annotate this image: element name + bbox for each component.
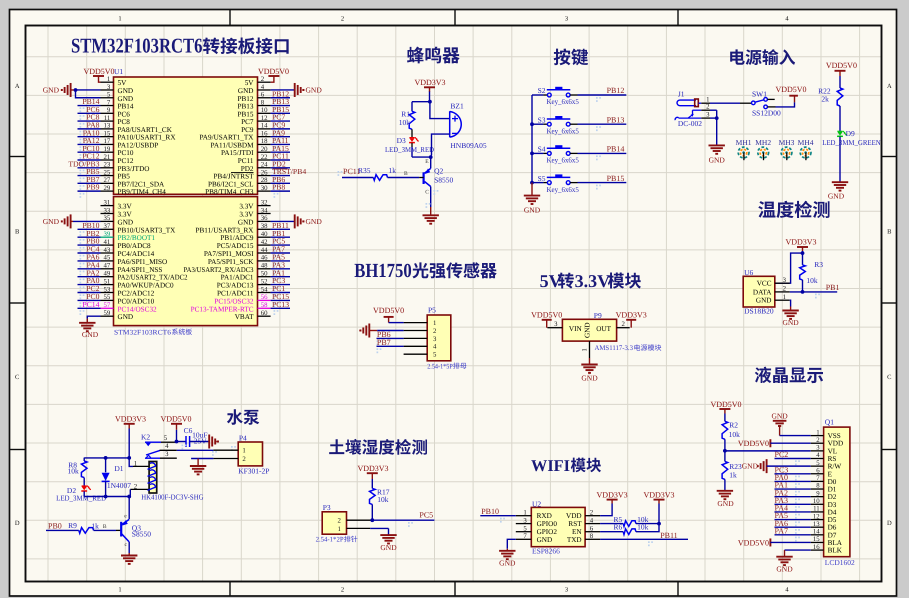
svg-text:STM32F103RCT6: STM32F103RCT6 xyxy=(71,34,203,58)
wire pump emitter node xyxy=(84,489,149,519)
svg-text:1k: 1k xyxy=(729,470,737,479)
svg-text:GND: GND xyxy=(771,411,788,420)
svg-text:OUT: OUT xyxy=(596,325,611,333)
node PB1 xyxy=(790,283,840,298)
svg-text:GND: GND xyxy=(776,564,793,573)
svg-text:PB8: PB8 xyxy=(272,183,285,192)
svg-text:LED_3MM_GREEN: LED_3MM_GREEN xyxy=(822,138,881,147)
U1 pin 8 PB13 xyxy=(238,97,290,112)
U1 pin 36 GND xyxy=(238,215,271,226)
svg-text:PB7: PB7 xyxy=(377,338,391,347)
svg-text:VDD3V3: VDD3V3 xyxy=(616,311,647,320)
title power input xyxy=(730,49,795,65)
U1 pin 3 GND xyxy=(101,84,134,95)
U1 pin 6 PB12 xyxy=(238,89,290,104)
svg-text:29: 29 xyxy=(104,185,111,192)
svg-text:D3: D3 xyxy=(397,136,406,145)
wire buzzer bottom lead xyxy=(412,134,450,159)
U1 pin 5 GND xyxy=(101,92,134,103)
svg-text:GND: GND xyxy=(82,330,99,339)
svg-text:2: 2 xyxy=(433,328,437,335)
ground GND U1 pin4 xyxy=(271,83,323,97)
overline TRST xyxy=(273,168,288,170)
svg-text:SS12D00: SS12D00 xyxy=(752,109,781,118)
svg-text:VDD5V0: VDD5V0 xyxy=(826,61,857,70)
switch S3 Key_6x6x5 xyxy=(532,115,626,135)
node PC5 xyxy=(370,510,434,527)
U1 pin 46 PA5/SPI1_SCK xyxy=(208,253,290,268)
U1 pin 59 GND xyxy=(101,310,134,321)
svg-text:VDD3V3: VDD3V3 xyxy=(115,415,146,424)
ground GND U1 pin36 xyxy=(271,214,323,228)
svg-text:ESP8266: ESP8266 xyxy=(532,546,560,555)
svg-text:13: 13 xyxy=(813,521,820,528)
svg-text:14: 14 xyxy=(813,529,820,536)
switch S5 Key_6x6x5 xyxy=(532,174,626,194)
svg-text:11: 11 xyxy=(813,506,820,513)
svg-text:9: 9 xyxy=(816,490,820,497)
svg-text:3.3V: 3.3V xyxy=(239,203,254,211)
svg-text:Q1: Q1 xyxy=(825,418,834,427)
svg-text:GND: GND xyxy=(43,86,60,95)
wire buzzer top node xyxy=(412,100,450,119)
svg-text:2: 2 xyxy=(783,286,787,293)
svg-text:1N4007: 1N4007 xyxy=(107,481,131,490)
svg-text:23: 23 xyxy=(104,162,111,169)
svg-text:3: 3 xyxy=(565,587,568,594)
U1 pin 52 PC3/ADC13 xyxy=(217,276,290,291)
svg-text:PC13-TAMPER-RTC: PC13-TAMPER-RTC xyxy=(191,305,254,313)
U1 pin 14 PC9 xyxy=(241,120,290,135)
svg-text:19: 19 xyxy=(104,146,111,153)
component P9 AMS1117 module xyxy=(547,311,629,358)
svg-text:GND: GND xyxy=(583,322,591,338)
svg-text:GND: GND xyxy=(306,217,323,226)
svg-text:41: 41 xyxy=(104,239,111,246)
component Q1 LCD1602 xyxy=(811,418,855,567)
svg-text:8: 8 xyxy=(590,533,594,540)
svg-text:MH2: MH2 xyxy=(755,138,771,147)
svg-text:PC14: PC14 xyxy=(82,300,99,309)
svg-text:AMS1117-3.3: AMS1117-3.3 xyxy=(595,344,634,352)
svg-text:MH1: MH1 xyxy=(736,138,752,147)
svg-text:BZ1: BZ1 xyxy=(450,102,464,111)
switch S2 Key_6x6x5 xyxy=(532,86,626,106)
power VDD5V0 U1 pin1 xyxy=(83,67,114,82)
svg-text:R2: R2 xyxy=(729,421,738,430)
title soil moisture detect xyxy=(329,439,427,455)
svg-text:VDD5V0: VDD5V0 xyxy=(83,67,114,76)
ground Q3 xyxy=(121,553,137,564)
svg-text:27: 27 xyxy=(104,177,111,184)
U1 pin 29 PB9/TIM4_CH4 xyxy=(78,183,167,198)
svg-text:GND: GND xyxy=(742,462,759,471)
svg-text:31: 31 xyxy=(104,199,111,206)
svg-text:GND: GND xyxy=(43,217,60,226)
svg-text:3: 3 xyxy=(107,84,111,91)
svg-text:12: 12 xyxy=(261,115,268,122)
transistor Q3 xyxy=(121,513,151,553)
svg-text:2: 2 xyxy=(706,104,710,111)
svg-text:GPIO0: GPIO0 xyxy=(537,520,558,528)
svg-text:10k: 10k xyxy=(377,495,389,504)
svg-text:PC14/OSC32: PC14/OSC32 xyxy=(118,305,158,313)
svg-text:Key_6x6x5: Key_6x6x5 xyxy=(547,185,580,194)
U1 pin 15 PA10/USART1_RX xyxy=(78,128,177,143)
relay K2 HK4100F-DC3V-SHG xyxy=(134,432,204,501)
svg-text:54: 54 xyxy=(261,286,268,293)
resistor R35 xyxy=(338,166,420,180)
svg-text:15: 15 xyxy=(813,536,820,543)
power VDD5V0 P5 xyxy=(373,306,404,323)
svg-text:3: 3 xyxy=(523,517,527,524)
svg-text:VBAT: VBAT xyxy=(235,313,254,321)
ground buzzer xyxy=(426,203,428,205)
svg-text:VDD5V0: VDD5V0 xyxy=(775,85,806,94)
overline JNTRST xyxy=(231,171,254,173)
svg-text:5: 5 xyxy=(433,352,437,359)
svg-text:PB0/ADC8: PB0/ADC8 xyxy=(118,242,152,250)
U1 pin 11 PC8 xyxy=(78,113,131,128)
svg-text:STM32F103RCT6: STM32F103RCT6 xyxy=(114,328,172,336)
svg-text:PB13: PB13 xyxy=(607,115,625,124)
svg-text:3: 3 xyxy=(816,445,820,452)
svg-text:B: B xyxy=(887,228,892,235)
svg-text:KF301-2P: KF301-2P xyxy=(238,466,269,475)
title keys xyxy=(554,49,588,66)
svg-text:7: 7 xyxy=(523,533,527,540)
svg-text:39: 39 xyxy=(104,231,111,238)
svg-text:RXD: RXD xyxy=(537,512,552,520)
svg-text:GND: GND xyxy=(238,218,254,226)
svg-text:SW1: SW1 xyxy=(752,89,767,98)
connector P5 2.54-1*5P header xyxy=(404,306,453,371)
U1 pin 32 3.3V xyxy=(239,199,270,210)
U1 pin 49 PA2/USART2_TX/ADC2 xyxy=(78,268,188,283)
svg-text:R6: R6 xyxy=(614,523,623,532)
svg-text:GND: GND xyxy=(524,205,541,214)
U1 pin 19 PC10 xyxy=(78,144,134,159)
svg-text:R35: R35 xyxy=(358,166,371,175)
svg-text:11: 11 xyxy=(104,115,111,122)
ground LCD pin16 xyxy=(776,550,810,573)
node PA1 LCD pin 8 xyxy=(775,481,811,496)
ground U6 xyxy=(782,300,799,327)
node PA0 LCD pin 7 xyxy=(775,473,811,488)
svg-text:17: 17 xyxy=(104,138,111,145)
svg-text:VDD5V0: VDD5V0 xyxy=(258,67,289,76)
svg-text:R9: R9 xyxy=(68,521,77,530)
U1 pin 26 PB4/JNTRST xyxy=(214,167,307,182)
U1 pin 40 PB1/ADC9 xyxy=(220,229,290,244)
svg-text:13: 13 xyxy=(104,123,111,130)
svg-text:1: 1 xyxy=(581,348,588,351)
wire VL to LCD pin3 xyxy=(725,450,811,452)
svg-text:59: 59 xyxy=(104,310,111,317)
title WIFI module xyxy=(531,456,601,475)
led D3 xyxy=(385,129,435,157)
node PC3 LCD pin 6 xyxy=(775,465,811,480)
svg-text:3: 3 xyxy=(433,336,437,343)
svg-text:PB1: PB1 xyxy=(826,283,840,292)
svg-text:U6: U6 xyxy=(744,268,753,277)
svg-text:7: 7 xyxy=(816,475,820,482)
U1 pin 56 PC15/OSC32 xyxy=(214,292,290,307)
resistor R22 xyxy=(818,86,843,106)
power VDD5V0 R2 branch xyxy=(710,400,741,421)
svg-text:35: 35 xyxy=(104,215,111,222)
svg-text:S8550: S8550 xyxy=(434,176,453,185)
svg-text:51: 51 xyxy=(104,278,111,285)
U1 pin 39 PB2/BOOT1 xyxy=(78,229,156,244)
svg-text:1k: 1k xyxy=(389,166,397,175)
svg-text:PA3/USART2_RX/ADC3: PA3/USART2_RX/ADC3 xyxy=(184,266,254,274)
power VDD3V3 pullups xyxy=(643,491,674,524)
svg-text:1: 1 xyxy=(107,76,110,83)
wire J1 to ground xyxy=(710,110,719,145)
svg-text:1k: 1k xyxy=(91,521,99,530)
U1 pin 55 PC0/ADC10 xyxy=(78,292,155,307)
power VDD5V0 pump xyxy=(160,415,191,444)
svg-text:10k: 10k xyxy=(68,467,80,476)
resistor R9 xyxy=(46,521,120,533)
svg-text:D1: D1 xyxy=(114,464,123,473)
svg-text:40: 40 xyxy=(261,231,268,238)
wire pump vdd node xyxy=(84,456,149,466)
U1 pin 21 PC12 xyxy=(78,152,134,167)
svg-text:VDD3V3: VDD3V3 xyxy=(357,464,388,473)
node PA4 LCD pin 11 xyxy=(775,504,811,519)
svg-text:7: 7 xyxy=(107,99,111,106)
svg-text:LED_3MM_RED: LED_3MM_RED xyxy=(385,145,435,154)
svg-text:PA7/SPI1_MOSI: PA7/SPI1_MOSI xyxy=(204,250,254,258)
svg-text:45: 45 xyxy=(104,255,111,262)
svg-text:PA6/SPI1_MISO: PA6/SPI1_MISO xyxy=(118,258,168,266)
power VDD5V0 LCD pin15 xyxy=(738,538,811,547)
svg-text:2: 2 xyxy=(134,484,138,491)
power VDD3V3 P9 xyxy=(616,311,647,328)
U1 pin 37 PB10/USART3_TX xyxy=(78,221,177,236)
power VDD5V0 P9 xyxy=(531,311,562,328)
svg-text:PB14: PB14 xyxy=(607,145,625,154)
svg-text:34: 34 xyxy=(261,207,268,214)
svg-text:Key_6x6x5: Key_6x6x5 xyxy=(547,126,580,135)
ground D9 xyxy=(828,137,848,201)
svg-text:VDD3V3: VDD3V3 xyxy=(414,78,445,87)
svg-text:S5: S5 xyxy=(538,174,546,183)
node PA2 LCD pin 9 xyxy=(775,488,811,503)
svg-text:Key_6x6x5: Key_6x6x5 xyxy=(547,97,580,106)
svg-text:12: 12 xyxy=(813,513,820,520)
svg-text:PC0/ADC10: PC0/ADC10 xyxy=(118,297,155,305)
resistor R5 xyxy=(600,515,661,526)
svg-text:16: 16 xyxy=(261,130,268,137)
svg-text:9: 9 xyxy=(107,107,111,114)
wire keys left bus xyxy=(530,95,534,185)
svg-text:DATA: DATA xyxy=(753,288,772,296)
svg-text:GND: GND xyxy=(118,218,134,226)
svg-text:18: 18 xyxy=(261,138,268,145)
svg-text:60: 60 xyxy=(261,310,268,317)
svg-text:3: 3 xyxy=(565,16,568,23)
svg-text:PB10/USART3_TX: PB10/USART3_TX xyxy=(118,226,177,234)
U1 pin 34 3.3V xyxy=(239,207,270,218)
U1 pin 57 PC14/OSC32 xyxy=(78,300,158,315)
U1 pin 60 VBAT xyxy=(235,310,271,321)
U1 pin 27 PB7/I2C1_SDA xyxy=(78,175,166,190)
svg-text:10k: 10k xyxy=(806,276,818,285)
svg-text:PB0: PB0 xyxy=(48,521,62,530)
svg-text:4: 4 xyxy=(261,84,265,91)
svg-text:3: 3 xyxy=(165,451,169,458)
svg-text:25: 25 xyxy=(104,169,111,176)
svg-text:5: 5 xyxy=(107,92,111,99)
title temperature detect xyxy=(758,201,829,218)
component U2 ESP8266 xyxy=(516,500,600,556)
wire relay to P4 xyxy=(177,449,214,451)
U1 pin 2 5V xyxy=(245,76,271,87)
svg-text:J1: J1 xyxy=(678,90,685,99)
svg-text:2k: 2k xyxy=(821,95,829,104)
U1 pin 28 PB6/I2C1_SCL xyxy=(208,175,290,190)
svg-text:3.3V: 3.3V xyxy=(239,211,254,219)
svg-text:2: 2 xyxy=(242,456,246,463)
node PB11 xyxy=(600,531,688,546)
svg-text:GND: GND xyxy=(118,313,134,321)
svg-text:DC-002: DC-002 xyxy=(678,119,702,128)
resistor R23 xyxy=(722,461,742,479)
svg-text:10k: 10k xyxy=(399,118,411,127)
svg-text:DS18B20: DS18B20 xyxy=(744,307,774,316)
svg-text:GND: GND xyxy=(581,373,598,382)
svg-text:3: 3 xyxy=(554,321,558,328)
node PB6 xyxy=(377,330,404,345)
svg-text:B: B xyxy=(404,171,408,177)
svg-text:PB12: PB12 xyxy=(607,86,625,95)
svg-text:VDD5V0: VDD5V0 xyxy=(373,306,404,315)
svg-text:6: 6 xyxy=(590,525,594,532)
title STM32F103RCT6 adapter header xyxy=(71,34,289,58)
svg-text:VCC: VCC xyxy=(757,280,772,288)
svg-text:B: B xyxy=(103,524,107,530)
title buzzer xyxy=(407,47,460,64)
power VDD3V3 soil xyxy=(357,464,388,488)
svg-text:4: 4 xyxy=(433,344,437,351)
svg-text:10k: 10k xyxy=(729,430,741,439)
ground R23 xyxy=(717,479,735,507)
svg-text:HNB09A05: HNB09A05 xyxy=(450,141,487,150)
svg-text:2: 2 xyxy=(590,509,594,516)
U1 pin 31 3.3V xyxy=(101,199,133,210)
svg-text:TXD: TXD xyxy=(567,536,582,544)
svg-text:PC5/ADC15: PC5/ADC15 xyxy=(217,242,254,250)
svg-text:VDD5V0: VDD5V0 xyxy=(160,415,191,424)
svg-text:PB15: PB15 xyxy=(607,174,625,183)
mounting hole MH4 xyxy=(798,138,814,160)
ground LCD pin1 xyxy=(771,411,810,435)
power VDD3V3 buzzer xyxy=(414,78,445,101)
title 5V to 3.3V module xyxy=(540,271,641,291)
resistor R6 xyxy=(600,523,659,535)
U1 pin 43 PC4/ADC14 xyxy=(78,245,155,260)
svg-text:PC15/OSC32: PC15/OSC32 xyxy=(214,297,254,305)
svg-text:2.54-1*5P: 2.54-1*5P xyxy=(427,362,453,370)
ground P3 xyxy=(370,528,397,552)
svg-text:PB9/TIM4_CH4: PB9/TIM4_CH4 xyxy=(118,188,167,196)
U1 pin 50 PA1/ADC1 xyxy=(221,268,290,283)
svg-text:PB10: PB10 xyxy=(481,507,499,516)
ground GND U1 pins 3-5 xyxy=(43,83,101,98)
svg-text:C: C xyxy=(15,374,19,381)
U1 pin 7 PB14 xyxy=(78,97,134,112)
svg-text:6: 6 xyxy=(261,92,265,99)
component U6 DS18B20 xyxy=(743,268,790,316)
svg-text:33: 33 xyxy=(104,207,111,214)
svg-text:43: 43 xyxy=(104,247,111,254)
U1 pin 17 PA12/USBDP xyxy=(78,136,159,151)
svg-text:K2: K2 xyxy=(141,432,150,441)
svg-text:2: 2 xyxy=(816,437,820,444)
connector P3 2.54-1*2P header xyxy=(322,503,371,534)
U1 pin 48 PA3/USART2_RX/ADC3 xyxy=(184,260,291,275)
diode D1 1N4007 xyxy=(102,458,132,497)
svg-text:HK4100F-DC3V-SHG: HK4100F-DC3V-SHG xyxy=(141,493,204,502)
U1 pin 10 PB15 xyxy=(238,105,290,120)
connector J1 DC-002 xyxy=(675,90,710,129)
ground keys xyxy=(524,183,541,215)
svg-text:PB11: PB11 xyxy=(660,531,678,540)
svg-text:1: 1 xyxy=(706,97,709,104)
svg-text:1: 1 xyxy=(816,429,819,436)
svg-text:LCD1602: LCD1602 xyxy=(825,558,855,567)
svg-text:PC1/ADC11: PC1/ADC11 xyxy=(217,290,254,298)
svg-text:P5: P5 xyxy=(428,306,436,315)
svg-text:3: 3 xyxy=(706,112,710,119)
svg-text:PA4/SPI1_NSS: PA4/SPI1_NSS xyxy=(118,266,163,274)
svg-text:55: 55 xyxy=(104,294,111,301)
power VDD3V3 U2 pin2 xyxy=(597,491,628,516)
svg-text:P4: P4 xyxy=(239,433,247,442)
svg-text:30: 30 xyxy=(261,185,268,192)
node VL divider xyxy=(723,439,727,461)
label STM32F103RCT6 system board xyxy=(114,328,192,336)
power VDD3V3 temp xyxy=(785,238,816,254)
svg-text:3: 3 xyxy=(783,277,787,284)
transistor Q2 xyxy=(419,157,453,207)
svg-text:44: 44 xyxy=(261,247,268,254)
node PA7 LCD pin 14 xyxy=(775,526,811,541)
svg-text:2: 2 xyxy=(261,76,265,83)
svg-text:53: 53 xyxy=(104,286,111,293)
svg-text:1: 1 xyxy=(118,16,121,23)
U1 pin 22 PC11 xyxy=(238,152,290,167)
svg-text:GND: GND xyxy=(828,192,845,201)
mounting hole MH3 xyxy=(779,138,795,160)
power VDD5V0 R22 branch xyxy=(826,61,857,88)
U1 pin 4 GND xyxy=(238,84,271,95)
svg-text:PA7: PA7 xyxy=(775,526,789,535)
ground U2 xyxy=(499,539,516,567)
svg-text:22: 22 xyxy=(261,154,268,161)
svg-text:U2: U2 xyxy=(532,500,541,509)
switch SW1 SS12D00 xyxy=(710,89,781,117)
svg-text:10: 10 xyxy=(261,107,268,114)
svg-text:GND: GND xyxy=(380,543,397,552)
svg-text:S3: S3 xyxy=(538,115,546,124)
svg-text:32: 32 xyxy=(261,199,268,206)
svg-text:Q2: Q2 xyxy=(434,167,443,176)
U1 pin 53 PC2/ADC12 xyxy=(78,284,155,299)
